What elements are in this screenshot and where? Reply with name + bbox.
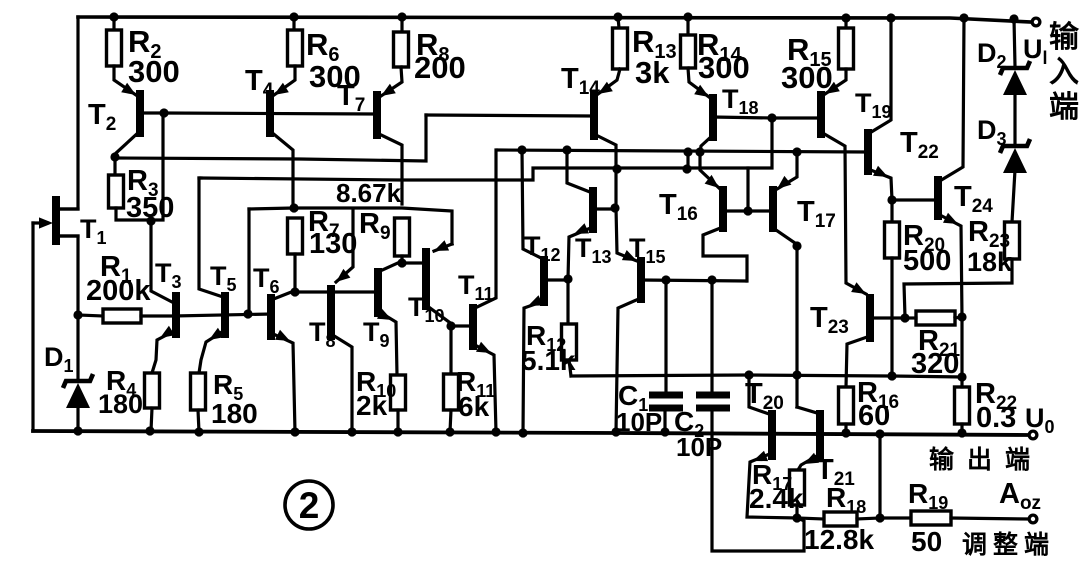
node rail2b T14 collector [612,164,621,173]
node top rail D2 branch [1009,14,1018,23]
svg-text:入: 入 [1049,56,1079,89]
node top rail R6 [289,12,298,21]
resistor R13 [618,17,619,28]
transistor T6 [267,294,275,340]
svg-text:60: 60 [858,400,890,432]
svg-text:10P: 10P [676,432,722,462]
transistor T1 [52,196,60,245]
svg-text:300: 300 [128,54,180,89]
transistor T22 [864,129,872,175]
svg-text:300: 300 [781,60,833,95]
node rail3 T17 emitter [792,147,801,156]
node rail3 T13 collector [562,145,571,154]
resistor R23 [1005,222,1020,259]
node T16-T17 base [743,206,752,215]
terminal U0 output [1028,430,1039,441]
wire T14 base line [426,115,592,116]
resistor R11 [449,326,452,374]
wire base line T3-T5-T6 [174,314,271,316]
transistor T3 [172,292,180,338]
wire left border (top rail to T1 collector) [57,17,78,209]
node T2 collector / R3 [110,152,119,161]
svg-text:12.8k: 12.8k [804,524,874,555]
node R10 ground [393,427,402,436]
node R11 ground [445,427,454,436]
node feedback R20 bottom [887,371,896,380]
wire bottom ground rail [33,431,1029,435]
wire T24 emitter to R22 [960,317,963,377]
svg-text:300: 300 [698,50,750,85]
svg-text:端: 端 [1049,91,1079,124]
node T8 collector ground [347,427,356,436]
svg-text:输: 输 [1049,21,1080,54]
node R5 ground [194,427,203,436]
diode D3 zener [1013,92,1016,144]
wire T10 emitter from rail [434,244,452,251]
node R4 ground [145,426,154,435]
transistor T12 [540,256,548,306]
svg-text:3k: 3k [635,55,670,90]
node R21 left / T23 base [900,313,909,322]
svg-text:180: 180 [98,389,143,419]
node T12 emitter ground [518,428,527,437]
svg-text:8.67k: 8.67k [336,178,402,208]
node rail3 T12 collector [517,145,526,154]
wire T16/T17 base riser to rail2b [746,168,749,211]
node R9 bottom / T9 collector / T10 base [397,258,406,267]
wire T24 base line [892,198,936,201]
node R3 bottom / T3 collector [146,216,155,225]
wire top supply rail [78,17,1030,22]
node rail3-rail2b stub [686,152,689,169]
wire T8-T9 base line [295,290,376,293]
transistor T18 [709,94,717,141]
node R21 right / T24 emitter [957,312,966,321]
svg-text:2.4k: 2.4k [749,483,804,514]
node top rail R15 [841,13,850,22]
node T22 emitter / R20 / T24 base [887,195,896,204]
node T4 collector / R7 / 8.67k rail [289,203,298,212]
node C1 branch [661,275,670,284]
wire T1 lower lead to R1/D1 node [57,236,78,380]
transistor T13 [589,187,597,233]
wire T14 collector line down to T15 emitter [616,208,637,261]
wire riser base-line to 8.67k rail [247,209,250,313]
transistor T9 [374,268,382,317]
terminal Aoz adjust [1028,514,1039,525]
node R7 bottom / T6 collector / T8 base [290,287,299,296]
terminal U1 input [1031,17,1042,28]
wire T17 collector line down [795,246,798,407]
transistor T10 [422,248,430,310]
resistor R6 [292,17,295,30]
resistor R12 [566,279,569,324]
node T5-T6 base line [243,309,252,318]
figure number 2 [285,481,333,529]
svg-text:180: 180 [211,398,258,429]
svg-text:350: 350 [126,192,174,224]
wire rail-2b T5 collector rail [199,176,201,179]
node R18-R19 junction [875,513,884,522]
resistor R2 [112,17,115,30]
svg-text:输出端: 输出端 [929,445,1043,474]
resistor R18 [797,518,824,519]
node top rail R14 [683,12,692,21]
wire R23 bottom to R21/T23 base [904,259,1012,317]
node top rail R2 [109,12,118,21]
transistor T21 [816,410,824,460]
resistor R20 [890,200,893,222]
node top rail T24 collector [959,13,968,22]
node R22 ground [957,428,966,437]
transistor T24 [934,176,942,220]
node T2 base [159,108,168,117]
resistor R7 [288,218,303,254]
diode D1 zener [63,374,93,388]
wire rail T2-collector to T14 base riser [115,115,426,161]
resistor R15 [844,18,847,28]
wire rail-3 high node [498,150,866,152]
node feedback T20 collector [744,370,753,379]
resistor R14 [686,17,689,35]
node R16 ground [841,428,850,437]
svg-text:130: 130 [309,228,357,260]
node top rail T22 collector [886,13,895,22]
node T12 base / T13 emitter / R12 [563,274,572,283]
node T6 emitter ground [290,427,299,436]
node C1 ground [660,427,669,436]
wire T18-T19 base line [772,116,819,119]
svg-text:10P: 10P [616,407,662,437]
wire T8 emitter from 8.67k rail [336,209,353,282]
svg-text:500: 500 [903,245,951,277]
resistor R16 [839,387,854,424]
svg-text:200k: 200k [86,275,151,307]
resistor R5 [191,373,206,410]
node T15 collector ground [611,427,620,436]
svg-text:5.1k: 5.1k [521,345,576,376]
resistor R1 [78,315,103,316]
svg-text:200: 200 [414,50,466,85]
node T10 collector / T11 base / R11 [446,321,455,330]
transistor T14 [590,91,598,140]
transistor T17 [769,186,777,232]
node C2 branch [707,275,716,284]
wire R18 node to output rail [878,434,881,518]
node feedback T17-T21 line [792,370,801,379]
node rail3 T18 collector [695,147,704,156]
transistor T19 [817,91,825,138]
resistor R3 [113,157,116,175]
node T11 emitter ground [491,427,500,436]
diode D2 zener [1014,19,1015,66]
transistor T16 [719,186,727,232]
capacitor C2 [710,280,713,392]
wire C2 bottom to R17/R18 node [712,411,804,551]
node T17 collector [792,241,801,250]
resistor R8 [400,17,403,32]
node feedback R22 top / T24 emitter [957,372,966,381]
resistor R4 [145,373,160,408]
node T13 base tap [610,203,619,212]
transistor T4 [266,90,274,137]
transistor T2 [136,90,144,137]
transistor T23 [866,294,874,342]
svg-text:0.3: 0.3 [976,402,1016,434]
node top rail R8 [397,12,406,21]
node T18-T19 base [767,113,776,122]
resistor R21 [916,311,955,325]
svg-text:18k: 18k [967,247,1013,277]
resistor R9 [395,218,410,256]
transistor T5 [221,292,229,338]
wire 8.67k rail [249,208,452,244]
svg-text:2k: 2k [356,390,388,421]
node R1 left [73,310,82,319]
resistor R19 [880,516,911,519]
transistor T11 [469,304,477,350]
svg-text:50: 50 [911,526,942,557]
svg-text:2: 2 [299,485,320,526]
svg-text:调整端: 调整端 [962,531,1055,559]
resistor R22 [955,387,970,424]
wire feedback line R12-R22 [571,375,962,377]
transistor T8 [327,285,335,340]
node top rail R13 [613,12,622,21]
wire base rail T2-T4-T7 [164,113,375,114]
svg-text:6k: 6k [458,391,490,422]
wire left outer border (T1 emitter down) [31,223,34,431]
resistor R10 [391,375,406,410]
capacitor C1 [664,280,667,392]
transistor T7 [373,91,381,139]
node R17 bottom / R18 left [792,513,801,522]
node D1 ground [73,426,82,435]
transistor T20 [768,410,776,460]
transistor T15 [637,257,645,303]
node output rail tap [875,429,884,438]
resistor R17 [790,470,805,505]
